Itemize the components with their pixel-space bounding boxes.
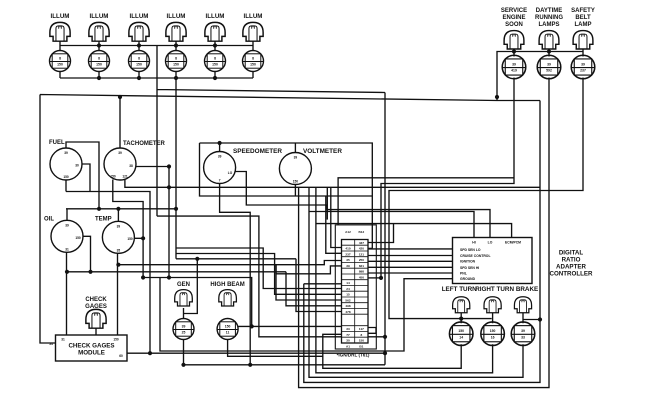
connector BRAKE (39/33) — [511, 322, 535, 346]
svg-text:150: 150 — [110, 175, 116, 179]
svg-text:TACHOMETER: TACHOMETER — [123, 141, 166, 147]
connector block C220 (A/B columns) — [335, 225, 376, 358]
wire lamp stubs turn signals — [461, 313, 523, 323]
svg-text:498: 498 — [345, 304, 350, 308]
svg-text:60: 60 — [119, 354, 123, 358]
wire fuel 30 chain — [66, 164, 150, 353]
svg-text:ENGINE: ENGINE — [502, 15, 525, 21]
svg-text:TEMP: TEMP — [95, 217, 112, 223]
wire drac lo feed from speedometer — [235, 172, 490, 238]
svg-text:39: 39 — [294, 156, 298, 160]
svg-text:35: 35 — [346, 258, 350, 262]
svg-text:CHECK: CHECK — [85, 297, 107, 303]
svg-text:237: 237 — [580, 69, 586, 73]
svg-text:150: 150 — [96, 63, 102, 67]
lamp LEFT TURN — [442, 286, 477, 313]
svg-text:150: 150 — [458, 329, 464, 333]
svg-text:38: 38 — [129, 164, 133, 168]
svg-text:LAMPS: LAMPS — [539, 22, 560, 28]
svg-text:592: 592 — [546, 69, 552, 73]
svg-text:8: 8 — [138, 56, 140, 60]
junction dots — [97, 43, 101, 47]
svg-text:B12: B12 — [359, 230, 365, 234]
content — [50, 13, 264, 72]
wire temp 150 riser chain — [134, 216, 341, 337]
wire tach 38 drop — [168, 167, 170, 278]
svg-text:ILLUM: ILLUM — [244, 13, 263, 20]
wire module output — [127, 352, 385, 354]
svg-text:BELT: BELT — [575, 15, 591, 21]
svg-text:33: 33 — [346, 327, 350, 331]
svg-text:437: 437 — [359, 241, 364, 245]
box CHECK GAGES MODULE — [49, 335, 127, 361]
lamp BRAKE — [514, 286, 538, 313]
svg-text:DAYTIME: DAYTIME — [536, 8, 562, 14]
svg-text:CONTROLLER: CONTROLLER — [550, 271, 593, 278]
wire high beam right pin — [238, 325, 341, 327]
lamp ILLUM 5 — [205, 13, 225, 41]
wire high beam ground chain — [228, 334, 342, 356]
svg-text:ILLUM: ILLUM — [130, 13, 149, 20]
wire illum feed trunk to lower right — [157, 46, 385, 365]
wire temp 35 to module — [117, 253, 119, 335]
lamp SAFETY BELT LAMP — [571, 8, 595, 49]
wire illum ground drop — [176, 78, 296, 259]
svg-text:8: 8 — [252, 56, 254, 60]
lamp ILLUM 6 — [243, 13, 263, 41]
svg-text:LO: LO — [488, 241, 493, 245]
svg-text:39: 39 — [117, 224, 121, 228]
svg-text:31: 31 — [61, 338, 65, 342]
svg-text:ILLUM: ILLUM — [51, 13, 70, 20]
box DRAC (digital ratio adapter controller) — [453, 238, 594, 284]
lamp RIGHT TURN — [475, 286, 514, 313]
wire tach 121 long bus — [125, 180, 540, 188]
svg-text:15: 15 — [346, 293, 350, 297]
svg-text:CHECK GAGES: CHECK GAGES — [68, 343, 114, 350]
wire drop to block outer box — [338, 178, 514, 225]
lamp GEN — [175, 282, 193, 306]
svg-text:8: 8 — [98, 56, 100, 60]
wire illum top bus — [60, 41, 253, 51]
svg-text:150: 150 — [359, 339, 364, 343]
wire bottom rail from speedo — [184, 184, 386, 365]
svg-text:LAMP: LAMP — [575, 22, 592, 28]
svg-text:150: 150 — [212, 63, 218, 67]
svg-text:7: 7 — [219, 179, 221, 183]
wire brake feed trunk — [304, 101, 540, 383]
wire block 450 row — [368, 277, 381, 279]
svg-text:CRUISE CONTROL: CRUISE CONTROL — [460, 254, 491, 258]
wire block 437 row — [368, 224, 394, 243]
svg-text:562: 562 — [345, 298, 350, 302]
wire block 117/8 bracket — [368, 328, 376, 334]
svg-text:39: 39 — [512, 62, 516, 66]
gauge TACHOMETER — [104, 148, 136, 180]
svg-text:419: 419 — [511, 69, 517, 73]
svg-text:821: 821 — [359, 264, 364, 268]
lamp ILLUM 1 — [50, 13, 70, 41]
svg-text:410: 410 — [345, 247, 350, 251]
svg-text:8: 8 — [59, 56, 61, 60]
wire illum bottom bus — [60, 72, 253, 79]
svg-text:150: 150 — [225, 324, 231, 328]
svg-text:GEN: GEN — [177, 282, 190, 288]
wire block left feeds — [176, 248, 342, 289]
lamp DAYTIME RUNNING LAMPS — [535, 8, 563, 49]
gauge OIL — [51, 220, 83, 252]
wire service engine soon drop — [381, 78, 514, 278]
svg-text:150: 150 — [75, 236, 81, 240]
svg-text:SERVICE: SERVICE — [501, 8, 527, 14]
svg-text:SPD SEN HI: SPD SEN HI — [460, 266, 479, 270]
svg-text:39: 39 — [581, 62, 585, 66]
svg-text:35: 35 — [117, 248, 121, 252]
wire nest3 brake ground — [309, 187, 523, 377]
wire block row 39 feed — [276, 266, 342, 274]
lamp ILLUM 2 — [89, 13, 109, 41]
svg-text:30: 30 — [75, 164, 79, 168]
gauge TEMP — [102, 221, 134, 253]
connector LEFT TURN (150/14) — [449, 322, 473, 346]
svg-text:ILLUM: ILLUM — [167, 13, 186, 20]
svg-text:77: 77 — [346, 333, 350, 337]
connector GEN (39/25) — [173, 319, 194, 340]
svg-text:117: 117 — [359, 327, 364, 331]
svg-text:237: 237 — [345, 252, 350, 256]
svg-text:150: 150 — [57, 63, 63, 67]
svg-text:121: 121 — [359, 252, 364, 256]
wire block row14 feed — [304, 283, 342, 285]
svg-text:GAGES: GAGES — [85, 304, 107, 310]
wire speedo voltmeter box — [200, 143, 373, 248]
svg-text:30: 30 — [346, 339, 350, 343]
svg-text:DIGITAL: DIGITAL — [559, 250, 584, 257]
svg-text:PNL: PNL — [460, 272, 467, 276]
wire drop to block header — [326, 187, 328, 219]
svg-text:SAFETY: SAFETY — [571, 8, 595, 14]
svg-text:39: 39 — [346, 264, 350, 268]
connector SBL (39/237) — [571, 55, 595, 79]
svg-text:B1: B1 — [359, 344, 363, 348]
wire block row 410 feed — [331, 187, 342, 247]
wire mid bus 277 — [143, 278, 252, 327]
svg-text:ILLUM: ILLUM — [206, 13, 225, 20]
wire fuel 39 elbow — [66, 142, 99, 209]
svg-text:24: 24 — [346, 287, 350, 291]
connector C4 (8/150) — [166, 51, 187, 72]
svg-text:ADAPTER: ADAPTER — [556, 264, 586, 271]
svg-text:39: 39 — [118, 151, 122, 155]
wire tach 39 feed — [119, 96, 121, 149]
lamp HIGH BEAM — [210, 282, 244, 306]
svg-text:150: 150 — [113, 338, 119, 342]
connector C1 (8/150) — [50, 51, 71, 72]
svg-text:14: 14 — [459, 335, 463, 339]
wire brake tee — [523, 319, 540, 321]
wire drac ground chain — [160, 278, 453, 365]
svg-text:250: 250 — [359, 258, 364, 262]
svg-text:150: 150 — [250, 63, 256, 67]
svg-text:ECM/PCM: ECM/PCM — [505, 241, 521, 245]
svg-text:GROUND: GROUND — [460, 277, 476, 281]
lamp ILLUM 4 — [166, 13, 186, 41]
gauge FUEL — [50, 148, 82, 180]
connector DRL (39/592) — [537, 55, 561, 79]
wire safety belt drop to left turn — [389, 78, 583, 319]
wire oil 31 to module — [66, 252, 68, 335]
svg-text:8: 8 — [361, 333, 363, 337]
svg-text:MODULE: MODULE — [78, 350, 105, 357]
svg-text:RIGHT TURN: RIGHT TURN — [475, 286, 514, 293]
svg-text:39: 39 — [182, 324, 186, 328]
svg-text:HIGH BEAM: HIGH BEAM — [210, 282, 244, 288]
connector RIGHT TURN (150/16) — [481, 322, 505, 346]
wire nest2 right turn ground — [316, 187, 493, 372]
svg-text:478: 478 — [345, 310, 350, 314]
wire temp branch to block row 35 — [118, 261, 341, 265]
wire block row 237 feed — [326, 196, 342, 253]
svg-text:8: 8 — [175, 56, 177, 60]
svg-text:14: 14 — [346, 281, 350, 285]
connector C2 (8/150) — [89, 51, 110, 72]
svg-text:25: 25 — [182, 331, 186, 335]
svg-text:150: 150 — [136, 63, 142, 67]
wire tach 150 — [113, 180, 143, 278]
svg-text:8: 8 — [214, 56, 216, 60]
wire nest1 left turn ground — [323, 344, 461, 368]
wire oil 150 stub — [83, 236, 91, 271]
svg-text:33: 33 — [521, 335, 525, 339]
svg-text:LEFT TURN: LEFT TURN — [442, 286, 477, 293]
svg-text:420: 420 — [359, 247, 364, 251]
lamp CHECK GAGES — [85, 297, 107, 328]
svg-text:39: 39 — [218, 155, 222, 159]
svg-text:SPEEDOMETER: SPEEDOMETER — [233, 148, 282, 155]
svg-text:121: 121 — [122, 175, 128, 179]
svg-text:450: 450 — [359, 275, 364, 279]
gauge SPEEDOMETER — [204, 152, 236, 184]
wire oil branch to gen — [67, 259, 286, 319]
wire oil temp 39 bus — [66, 209, 176, 222]
gauge pin labels — [63, 151, 298, 252]
svg-text:LO: LO — [228, 171, 233, 175]
svg-text:IGNITION: IGNITION — [460, 260, 476, 264]
wire drac hi feed — [309, 212, 474, 238]
svg-text:A12: A12 — [345, 230, 351, 234]
wire block 420 row — [368, 247, 372, 249]
svg-text:ILLUM: ILLUM — [90, 13, 109, 20]
svg-text:39: 39 — [65, 223, 69, 227]
svg-text:FUEL: FUEL — [49, 140, 65, 146]
connector C6 (8/150) — [243, 51, 264, 72]
svg-text:A1: A1 — [346, 344, 350, 348]
svg-text:RUNNING: RUNNING — [535, 15, 563, 21]
svg-text:150: 150 — [293, 180, 299, 184]
connector SES (39/419) — [502, 55, 526, 79]
svg-text:RATIO: RATIO — [562, 257, 581, 264]
svg-text:SOON: SOON — [505, 22, 523, 28]
connector C3 (8/150) — [129, 51, 150, 72]
svg-text:39: 39 — [521, 329, 525, 333]
svg-text:11: 11 — [226, 331, 230, 335]
svg-text:VOLTMETER: VOLTMETER — [303, 148, 342, 155]
svg-text:150: 150 — [490, 329, 496, 333]
svg-text:898: 898 — [359, 270, 364, 274]
svg-text:39: 39 — [547, 62, 551, 66]
svg-text:16: 16 — [491, 335, 495, 339]
svg-text:BRAKE: BRAKE — [516, 286, 538, 293]
wire drac left pins from block — [368, 249, 453, 273]
svg-text:31: 31 — [65, 247, 69, 251]
svg-text:150: 150 — [63, 175, 69, 179]
wire right-lamps top bus — [497, 49, 583, 101]
wire long panel bus — [40, 95, 540, 344]
wire daytime drop nest — [299, 78, 549, 388]
svg-text:150: 150 — [173, 63, 179, 67]
svg-text:39: 39 — [64, 151, 68, 155]
connector C5 (8/150) — [205, 51, 226, 72]
lamp ILLUM 3 — [129, 13, 149, 41]
connector HIGH BEAM (150/11) — [217, 319, 238, 340]
svg-text:HI: HI — [472, 241, 475, 245]
wire tach 38 — [136, 166, 169, 168]
svg-text:150: 150 — [127, 237, 133, 241]
lamp SERVICE ENGINE SOON — [501, 8, 527, 49]
wire ecm/pcm feed — [316, 224, 512, 238]
wire block row18 right to trunk — [368, 336, 385, 338]
gauge VOLTMETER — [279, 153, 311, 185]
wire check gages stub — [95, 328, 97, 335]
svg-text:SPD SEN LO: SPD SEN LO — [460, 248, 481, 252]
svg-text:OIL: OIL — [44, 217, 54, 223]
